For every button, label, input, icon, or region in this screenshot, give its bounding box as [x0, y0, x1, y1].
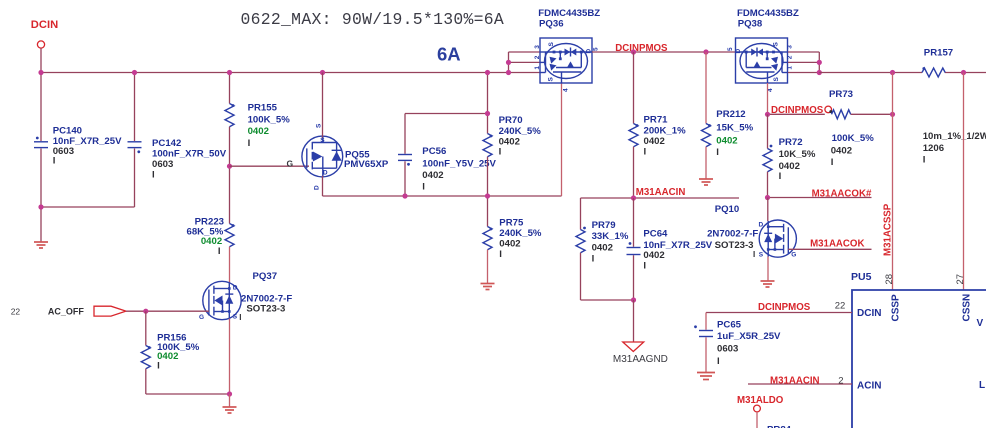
svg-text:S: S [320, 137, 325, 144]
svg-text:I: I [499, 249, 502, 260]
svg-text:15K_5%: 15K_5% [716, 123, 753, 134]
wire PQ10 drain column [767, 198, 769, 222]
wire ground drop PQ37 [229, 394, 231, 407]
svg-text:I: I [157, 361, 160, 372]
wire PR71 column [633, 52, 635, 124]
svg-text:SOT23-3: SOT23-3 [715, 240, 754, 251]
wire PR72 column [767, 114, 769, 148]
resistor PR223 [225, 224, 234, 247]
junction ground node [631, 297, 636, 302]
svg-text:3: 3 [534, 45, 541, 49]
svg-text:DCINPMOS: DCINPMOS [615, 43, 668, 54]
ground PQ10 [761, 281, 775, 287]
junction PQ10 drain [765, 195, 770, 200]
svg-text:PU5: PU5 [851, 271, 872, 283]
resistor PR212 [702, 124, 711, 147]
wire PQ36 left connector [508, 52, 510, 73]
resistor PR71 [629, 124, 638, 147]
svg-text:I: I [248, 138, 251, 149]
svg-text:PR70: PR70 [499, 115, 523, 126]
svg-text:22: 22 [835, 301, 846, 312]
wire PR70 lower [487, 157, 489, 196]
svg-text:PR84: PR84 [767, 425, 792, 428]
wire PQ38 right rows [788, 51, 819, 53]
wire PC142 column [134, 73, 136, 142]
wire M31ALDO drop [756, 412, 758, 428]
ground left [34, 242, 48, 248]
wire PQ55 source column [322, 73, 324, 138]
wire PR155 to PR223 [229, 127, 231, 224]
wire PQ55 drain column [322, 176, 324, 196]
svg-text:0402: 0402 [592, 242, 613, 253]
wire M31AACIN rail [581, 197, 740, 199]
wire PR156 column [145, 311, 147, 345]
wire ground drop left [40, 207, 42, 242]
svg-text:DCINPMOS: DCINPMOS [758, 302, 811, 313]
terminal DCIN [37, 41, 44, 48]
pin 22 DCIN [706, 312, 852, 314]
svg-text:S: S [759, 252, 764, 259]
wire right rail [819, 72, 922, 74]
wire PC140 column [40, 73, 42, 142]
svg-text:PR79: PR79 [592, 220, 616, 231]
wire PC64 column [633, 198, 635, 247]
svg-text:4: 4 [563, 88, 570, 92]
junction PQ36 pins [506, 60, 511, 65]
wire bottom rail caps [41, 206, 135, 208]
wire DCINPMOS rail [592, 51, 736, 53]
wire PQ38 right connector [818, 52, 820, 73]
junction PR156 tap [143, 309, 148, 314]
svg-text:5: 5 [593, 47, 600, 51]
wire PR79 column [580, 198, 582, 230]
svg-text:0402: 0402 [779, 161, 800, 172]
resistor PR155 [225, 104, 234, 127]
svg-text:ACIN: ACIN [857, 381, 881, 392]
svg-text:M31AACOK: M31AACOK [810, 238, 864, 249]
resistor PR70 [483, 134, 492, 157]
svg-text:100K_5%: 100K_5% [248, 115, 291, 126]
svg-text:2N7002-7-F: 2N7002-7-F [707, 228, 758, 239]
svg-text:6A: 6A [437, 44, 461, 65]
svg-text:PR71: PR71 [644, 115, 669, 126]
wire PR70 column [487, 73, 489, 134]
wire PQ10 source column [767, 257, 769, 281]
svg-text:PR155: PR155 [248, 103, 278, 114]
wire PR71 lower [633, 147, 635, 198]
svg-text:I: I [717, 356, 720, 367]
svg-text:G: G [287, 158, 294, 168]
junction dots right rail [890, 70, 895, 75]
wire PQ36 gate column [561, 83, 563, 196]
wire CSSN column [963, 73, 965, 291]
svg-text:S: S [773, 77, 780, 82]
svg-text:1: 1 [534, 66, 541, 70]
junction PQ38 gate [765, 112, 770, 117]
svg-text:2: 2 [534, 55, 541, 59]
wire CSSP column [892, 73, 894, 291]
wire M31AAGND drop [633, 300, 635, 342]
wire M31AACOK# line [768, 197, 872, 199]
wire PR72 lower [767, 172, 769, 198]
svg-text:M31AACIN: M31AACIN [636, 187, 686, 198]
svg-text:0402: 0402 [499, 239, 520, 250]
terminal PR73 left [825, 106, 832, 113]
svg-text:22: 22 [11, 306, 21, 316]
svg-text:AC_OFF: AC_OFF [48, 307, 85, 317]
svg-text:DCIN: DCIN [857, 308, 881, 319]
svg-text:FDMC4435BZ: FDMC4435BZ [737, 8, 799, 19]
wire PR212 to ground [705, 147, 707, 179]
svg-text:PMV65XP: PMV65XP [344, 159, 389, 170]
svg-text:I: I [753, 250, 755, 259]
svg-text:M31AAGND: M31AAGND [613, 354, 668, 365]
wire DCINPMOS gate line [768, 113, 825, 115]
wire PC65 column [705, 313, 707, 330]
svg-text:240K_5%: 240K_5% [499, 126, 542, 137]
svg-text:S: S [773, 42, 780, 47]
svg-text:1uF_X5R_25V: 1uF_X5R_25V [717, 331, 781, 342]
svg-text:0622_MAX: 90W/19.5*130%=6A: 0622_MAX: 90W/19.5*130%=6A [241, 10, 505, 29]
wire PR75 to ground [487, 250, 489, 283]
svg-text:PR75: PR75 [499, 218, 524, 229]
svg-text:200K_1%: 200K_1% [644, 126, 687, 137]
svg-text:S: S [548, 42, 555, 47]
svg-text:0603: 0603 [152, 159, 173, 170]
svg-text:I: I [53, 156, 56, 167]
svg-text:I: I [422, 182, 425, 193]
power symbol M31AAGND [623, 342, 644, 352]
svg-text:M31ACSSP: M31ACSSP [883, 203, 894, 256]
wire PR156 lower [145, 369, 147, 394]
svg-text:CSSP: CSSP [891, 294, 902, 322]
svg-text:I: I [239, 313, 241, 322]
junction dots PC56 PR70 [402, 70, 490, 199]
svg-text:PR73: PR73 [829, 89, 853, 100]
svg-text:G: G [199, 314, 204, 321]
svg-text:0402: 0402 [157, 351, 178, 362]
pin 2 ACIN [748, 383, 852, 385]
svg-text:I: I [831, 157, 834, 168]
svg-text:10m_1%_1/2W: 10m_1%_1/2W [923, 131, 986, 142]
svg-text:I: I [218, 246, 221, 257]
wire PQ36 pin1 row [509, 51, 541, 53]
svg-text:DCINPMOS: DCINPMOS [771, 105, 824, 116]
capacitor PC65 [699, 331, 713, 337]
junction gate tap PQ55 [227, 164, 232, 169]
svg-text:2: 2 [838, 376, 843, 387]
svg-text:I: I [499, 147, 502, 158]
svg-text:I: I [592, 254, 595, 265]
svg-text:0402: 0402 [716, 135, 737, 146]
svg-text:CSSN: CSSN [962, 294, 973, 322]
svg-text:S: S [316, 123, 323, 128]
svg-text:2: 2 [787, 55, 794, 59]
svg-text:G: G [791, 252, 796, 259]
resistor PR157 [922, 68, 945, 77]
svg-text:PC65: PC65 [717, 320, 742, 331]
wire bottom line PR79 PC64 [581, 299, 634, 301]
svg-text:D: D [759, 222, 764, 229]
svg-text:10K_5%: 10K_5% [779, 149, 816, 160]
ground PR212 [699, 179, 713, 185]
svg-text:100K_5%: 100K_5% [832, 133, 875, 144]
resistor PR79 [576, 230, 585, 253]
svg-text:0402: 0402 [248, 126, 269, 137]
svg-text:100nF_X7R_50V: 100nF_X7R_50V [152, 149, 227, 160]
svg-text:I: I [923, 155, 926, 166]
svg-text:28: 28 [884, 274, 895, 285]
capacitor PC56 [398, 155, 412, 161]
resistor PR73 [832, 110, 851, 119]
junction PR73 CSSP [890, 112, 895, 117]
svg-text:D: D [323, 170, 328, 177]
wire PQ55 gate [230, 165, 310, 167]
svg-text:PR157: PR157 [924, 48, 953, 59]
svg-text:5: 5 [727, 47, 734, 51]
junction dots DCINPMOS [631, 49, 636, 54]
transistor PQ37 [199, 271, 292, 322]
svg-text:PC64: PC64 [643, 229, 668, 240]
svg-text:D: D [233, 285, 238, 292]
wire AC_OFF to gate [126, 310, 209, 312]
svg-text:M31ALDO: M31ALDO [737, 395, 784, 406]
svg-text:0402: 0402 [644, 136, 665, 147]
resistor PR75 [483, 227, 492, 250]
svg-text:D: D [586, 49, 593, 54]
svg-text:SOT23-3: SOT23-3 [246, 304, 285, 315]
wire PQ38 gate column [767, 83, 769, 114]
junction dots main rail [38, 70, 325, 210]
wire PR73 right [851, 113, 893, 115]
junction PQ38 right [817, 60, 822, 65]
wire drain line to PQ36 gate [323, 195, 562, 197]
svg-text:M31AACOK#: M31AACOK# [812, 188, 872, 199]
wire PQ37 source column [229, 319, 231, 395]
wire DCIN drop [40, 48, 42, 72]
svg-text:D: D [314, 185, 321, 190]
transistor PQ55 [287, 123, 389, 190]
capacitor PC64 [627, 248, 641, 255]
svg-text:I: I [644, 147, 647, 158]
wire PR223 to PQ37 drain [229, 247, 231, 283]
svg-text:240K_5%: 240K_5% [499, 228, 542, 239]
wire PR155 column [229, 73, 231, 104]
wire PC56 branch [405, 113, 488, 115]
chip PU5 outline [852, 290, 986, 428]
ground PQ37 [223, 407, 237, 413]
svg-text:I: I [779, 171, 782, 182]
wire bottom rail PQ37 [146, 393, 230, 395]
ground PC65 [697, 373, 715, 380]
svg-text:0603: 0603 [717, 344, 738, 355]
svg-text:0402: 0402 [499, 137, 520, 148]
svg-text:0402: 0402 [643, 250, 664, 261]
svg-text:0402: 0402 [831, 146, 852, 157]
wire PQ36 pin2 row [509, 61, 541, 63]
wire main rail DCIN [41, 72, 540, 74]
svg-text:1: 1 [787, 66, 794, 70]
svg-text:M31AACIN: M31AACIN [770, 375, 820, 386]
svg-text:S: S [548, 77, 555, 82]
svg-text:PQ36: PQ36 [539, 19, 564, 30]
svg-text:33K_1%: 33K_1% [592, 231, 629, 242]
svg-text:I: I [152, 170, 155, 181]
terminal M31ALDO [754, 405, 761, 412]
svg-text:D: D [735, 49, 742, 54]
svg-text:PR212: PR212 [716, 109, 745, 120]
svg-text:1206: 1206 [923, 143, 944, 154]
svg-text:3: 3 [787, 45, 794, 49]
svg-text:FDMC4435BZ: FDMC4435BZ [538, 8, 600, 19]
svg-text:27: 27 [955, 274, 966, 285]
svg-text:PC140: PC140 [53, 126, 82, 137]
svg-text:V: V [977, 318, 984, 329]
svg-text:0603: 0603 [53, 146, 74, 157]
wire PR75 column [487, 196, 489, 227]
junction M31AACIN [631, 195, 636, 200]
resistor PR72 [763, 149, 772, 172]
capacitor PC140 [34, 142, 48, 148]
resistor PR156 [141, 346, 150, 369]
svg-text:100nF_Y5V_25V: 100nF_Y5V_25V [422, 159, 496, 170]
svg-text:PQ10: PQ10 [715, 204, 740, 215]
wire PR79 lower [580, 253, 582, 300]
transistor PQ36 FDMC4435BZ [534, 8, 600, 92]
svg-text:I: I [643, 261, 646, 272]
svg-text:PC142: PC142 [152, 138, 181, 149]
svg-text:PC56: PC56 [422, 146, 446, 157]
transistor PQ38 FDMC4435BZ [727, 8, 799, 92]
svg-text:S: S [233, 314, 238, 321]
svg-text:PQ37: PQ37 [253, 271, 278, 282]
junction bottom rail [227, 391, 232, 396]
ground PR75 [481, 284, 495, 290]
wire M31AACOK gate line [788, 248, 871, 250]
wire PR212 column [705, 52, 707, 124]
svg-text:PR72: PR72 [779, 137, 803, 148]
svg-text:0402: 0402 [422, 170, 443, 181]
wire PC56 column [404, 114, 406, 154]
svg-text:I: I [716, 147, 719, 158]
capacitor PC142 [128, 142, 142, 148]
svg-text:DCIN: DCIN [31, 19, 58, 31]
svg-text:PQ38: PQ38 [738, 19, 763, 30]
transistor PQ10 [707, 204, 796, 259]
svg-text:L: L [979, 380, 985, 391]
